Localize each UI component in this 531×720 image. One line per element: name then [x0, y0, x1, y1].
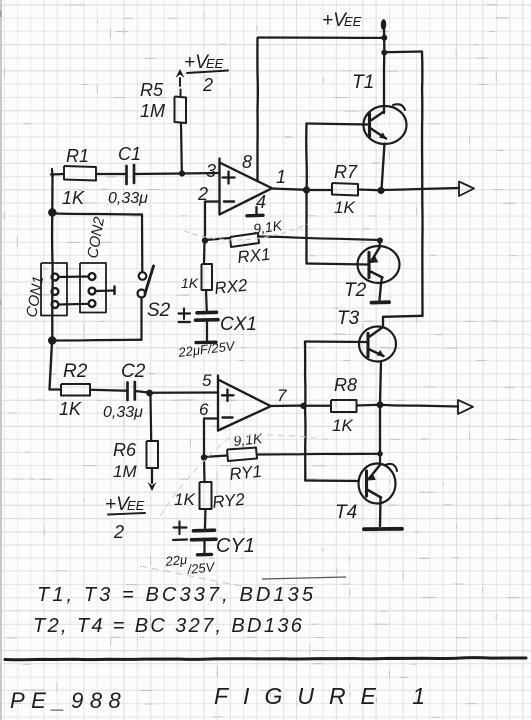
- svg-text:1K: 1K: [181, 275, 199, 291]
- CON2 pin 1: [89, 273, 96, 280]
- resistor RY2 1K: [200, 482, 212, 509]
- op-amp U2 minus sign: [223, 416, 233, 418]
- pencil dash over BD135: [262, 577, 346, 579]
- switch S2 lever: [145, 266, 154, 294]
- wire T4 collector down: [379, 498, 382, 526]
- wire R8 to output rail 2 node: [357, 404, 381, 407]
- svg-text:PE_988: PE_988: [10, 688, 127, 713]
- svg-text:T2, T4 = BC 327, BD136: T2, T4 = BC 327, BD136: [33, 615, 304, 637]
- svg-text:C2: C2: [121, 361, 146, 382]
- svg-text:2: 2: [113, 522, 124, 542]
- wire R6 to down arrow: [151, 468, 153, 483]
- op-amp U1 triangle: [218, 159, 220, 215]
- capacitor C2: [126, 383, 129, 401]
- switch S2 bottom contact: [138, 290, 146, 298]
- wire T3 base: [305, 340, 367, 343]
- junction blob top of CON rail: [48, 208, 56, 216]
- pencil arc top: [184, 224, 308, 240]
- node pin6/RY junction: [201, 454, 207, 460]
- wire RX1 to T2 emitter tap: [258, 237, 380, 241]
- svg-text:R8: R8: [334, 375, 357, 395]
- wire output rail 2 to arrow: [380, 405, 458, 407]
- svg-text:RX2: RX2: [213, 276, 248, 298]
- output node 2 junction: [300, 403, 306, 409]
- pencil arc bottom: [160, 435, 330, 516]
- output node junction: [303, 186, 310, 193]
- svg-text:T1, T3 = BC337, BD135: T1, T3 = BC337, BD135: [37, 584, 316, 606]
- node pin2/RX junction: [202, 237, 208, 243]
- wire T1 emitter down to output rail: [382, 144, 385, 191]
- T2 collector end bar: [372, 300, 390, 304]
- resistor RX1 9.1K: [230, 233, 259, 247]
- wire S2 box right vertical (bottom): [140, 298, 142, 340]
- wire junction down to RX2: [203, 241, 206, 265]
- wire output rail 2 down to T4: [379, 405, 381, 452]
- wire junction down to RY2: [203, 458, 206, 483]
- svg-text:R2: R2: [63, 361, 88, 382]
- op-amp U2 triangle: [217, 376, 219, 431]
- connector CON2 box: [80, 263, 106, 313]
- svg-text:T2: T2: [344, 280, 367, 301]
- wire pin 6: [204, 419, 218, 457]
- pin 2 wire: [205, 202, 220, 240]
- transistor T1: [364, 106, 407, 144]
- svg-text:1M: 1M: [140, 101, 165, 121]
- svg-text:9,1K: 9,1K: [233, 430, 264, 449]
- wire pin 5: [153, 391, 218, 394]
- wire pin-8 supply rail: [258, 36, 384, 39]
- wire right branch top: [384, 50, 422, 53]
- wire S2 box right vertical (top): [141, 215, 144, 272]
- wire junction to RY1: [204, 456, 227, 458]
- wire base rail vertical (T1/T2): [305, 124, 308, 264]
- wire RY2 to CY1: [204, 509, 207, 528]
- svg-text:C1: C1: [118, 144, 141, 164]
- T4 collector end bar: [364, 527, 402, 531]
- wire R1 to C1: [96, 173, 126, 175]
- svg-text:1K: 1K: [59, 399, 82, 419]
- svg-text:/25V: /25V: [186, 559, 216, 577]
- wire node B down to R6: [149, 396, 152, 442]
- junction on +VEE line (pin-8 rail): [381, 35, 387, 41]
- junction blob bottom of CON rail: [48, 336, 56, 344]
- resistor R8 1K: [331, 400, 357, 412]
- svg-text:CX1: CX1: [220, 314, 257, 335]
- svg-text:2: 2: [202, 75, 213, 95]
- transistor T2: [358, 246, 400, 283]
- resistor R1: [64, 166, 96, 181]
- wire output rail to arrow: [381, 188, 459, 190]
- capacitor C1: [125, 166, 128, 184]
- svg-text:S2: S2: [147, 300, 171, 321]
- svg-text:RY1: RY1: [228, 462, 262, 484]
- wire R2 to C2: [90, 390, 127, 391]
- wire S2 box bottom: [53, 339, 142, 342]
- transistor T4: [359, 464, 396, 504]
- node B junction: [146, 390, 153, 397]
- wire T4 base: [305, 479, 358, 482]
- svg-text:T4: T4: [335, 502, 357, 523]
- wire C2 to node B: [135, 391, 147, 392]
- wire junction to RX1: [205, 238, 230, 240]
- svg-text:EE: EE: [206, 56, 224, 71]
- wire T2 base: [307, 264, 369, 265]
- pin 4 stub and bar: [255, 207, 257, 215]
- CON2 pin 2: [89, 288, 96, 295]
- svg-text:1K: 1K: [174, 490, 195, 509]
- wire C1 to node A: [134, 172, 182, 175]
- wire input top-left start hook: [51, 169, 54, 177]
- svg-text:0,33μ: 0,33μ: [103, 404, 143, 421]
- wire right branch vertical: [421, 52, 424, 316]
- capacitor CY1: [194, 528, 215, 532]
- wire R5 to node A: [180, 124, 183, 172]
- svg-text:1K: 1K: [334, 198, 355, 217]
- svg-text:EE: EE: [344, 14, 362, 29]
- svg-text:R7: R7: [334, 162, 358, 182]
- wire base rail vertical (T3/T4): [304, 342, 307, 481]
- svg-text:T3: T3: [337, 308, 360, 329]
- resistor R7 1K: [332, 183, 358, 196]
- svg-text:1K: 1K: [332, 416, 353, 435]
- wire CON2 pin2 stub: [96, 289, 115, 292]
- wire T2 collector down: [380, 278, 383, 301]
- resistor R6: [147, 441, 159, 468]
- svg-text:9,1K: 9,1K: [252, 217, 283, 237]
- svg-text:6: 6: [199, 400, 209, 419]
- svg-text:1K: 1K: [62, 188, 85, 208]
- output arrow 1: [459, 182, 474, 197]
- op-amp U1 plus sign: [227, 172, 229, 184]
- wire tap into T4: [379, 454, 381, 465]
- svg-text:R6: R6: [113, 440, 137, 460]
- wire to R7: [307, 189, 333, 191]
- connector CON1 box: [41, 263, 67, 316]
- wire RX2 to CX1: [205, 290, 208, 311]
- wire op-amp U1 output: [271, 189, 306, 190]
- wire right branch to T3 collector: [383, 316, 423, 327]
- svg-text:T1: T1: [352, 72, 374, 93]
- svg-text:EE: EE: [127, 498, 145, 513]
- wire T1 base: [307, 124, 369, 125]
- capacitor CX1 polarity mark: [183, 309, 185, 320]
- wire RY1 to T4 tap: [257, 453, 380, 456]
- CON2 pin 3: [89, 300, 96, 307]
- svg-text:8: 8: [242, 152, 252, 172]
- pin 8 supply wire from +VEE rail: [256, 38, 259, 181]
- svg-text:0,33μ: 0,33μ: [108, 190, 148, 207]
- CON1 pin 1: [52, 274, 59, 281]
- op-amp U1 minus sign: [224, 200, 234, 202]
- resistor RX2 1K: [202, 264, 213, 290]
- svg-text:22μ: 22μ: [164, 552, 188, 569]
- wire op-amp U2 output: [270, 404, 303, 407]
- svg-text:5: 5: [202, 371, 212, 390]
- svg-text:7: 7: [277, 386, 287, 405]
- svg-text:RY2: RY2: [211, 490, 246, 512]
- wire T3 emitter down to output rail 2: [380, 362, 381, 405]
- resistor R2: [50, 388, 62, 390]
- svg-text:22μF/25V: 22μF/25V: [177, 338, 237, 360]
- svg-text:CY1: CY1: [216, 535, 255, 557]
- svg-text:R1: R1: [66, 146, 89, 166]
- switch S2 top contact: [139, 272, 147, 280]
- svg-text:FIGURE 1: FIGURE 1: [214, 683, 440, 709]
- svg-text:R5: R5: [140, 80, 164, 100]
- T4 tap dot: [377, 451, 383, 457]
- output rail 2 junction: [377, 401, 384, 408]
- CON1 pin 3: [52, 301, 59, 308]
- capacitor CY1 polarity mark: [178, 522, 180, 535]
- junction on +VEE line (right branch): [381, 50, 387, 56]
- wire left rail through CON1: [51, 213, 54, 339]
- op-amp U2 plus sign: [226, 390, 228, 402]
- +VEE/2 arrow (top): [176, 69, 185, 78]
- CON1 pin 2: [52, 288, 59, 295]
- wire +VEE down to T1 collector: [383, 27, 386, 113]
- resistor R5: [175, 97, 187, 124]
- svg-text:CON2: CON2: [84, 215, 108, 260]
- T2 emitter tap dot: [377, 238, 383, 244]
- wire top input rail to R1: [51, 173, 64, 176]
- wire left rail (input to CON1): [51, 176, 54, 211]
- capacitor CX1: [197, 311, 217, 315]
- wire R7 to output rail node: [358, 188, 381, 191]
- pencil diagonal near CY1: [140, 566, 256, 589]
- wire tap into T2: [378, 241, 381, 248]
- wire node A to op-amp pin 3: [182, 172, 219, 175]
- wire CON1 pin1 to CON2 pin1: [59, 275, 89, 278]
- svg-text:1M: 1M: [113, 462, 137, 481]
- svg-text:3: 3: [206, 161, 216, 181]
- wire CON rail down to R2: [50, 342, 53, 390]
- svg-text:RX1: RX1: [236, 245, 271, 267]
- output rail junction: [377, 187, 384, 194]
- svg-text:1: 1: [276, 167, 286, 187]
- footer rule: [5, 658, 526, 660]
- +VEE terminal blob: [381, 19, 386, 30]
- resistor RY1 9.1K: [227, 448, 257, 462]
- node A junction: [179, 170, 185, 176]
- wire CON1 pin3 to CON2 pin3: [59, 303, 89, 306]
- wire to R8: [304, 405, 332, 407]
- wire S2 box top: [53, 214, 142, 215]
- output arrow 2: [458, 400, 473, 414]
- transistor T3: [359, 327, 396, 362]
